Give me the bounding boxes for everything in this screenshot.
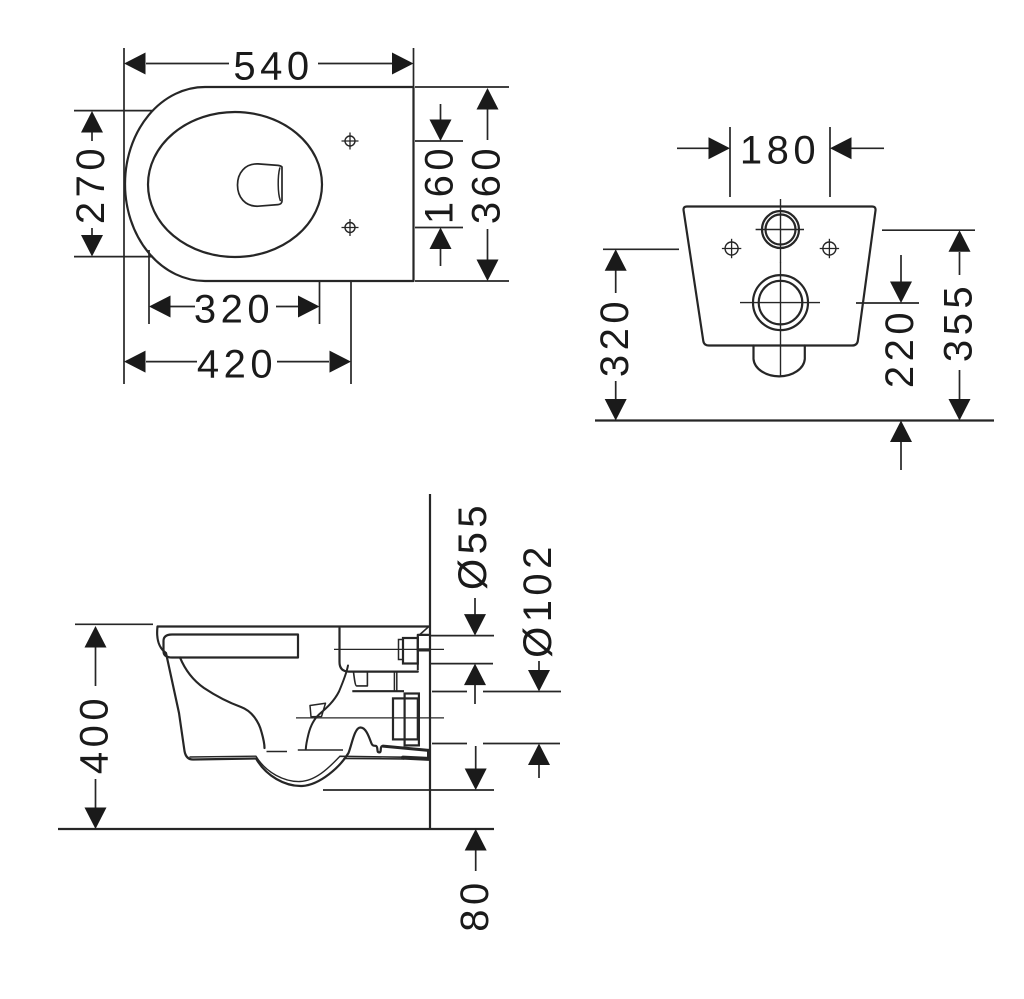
- svg-text:355: 355: [937, 282, 981, 362]
- svg-text:Ø55: Ø55: [451, 501, 495, 590]
- svg-text:420: 420: [197, 343, 277, 387]
- svg-text:320: 320: [194, 288, 274, 332]
- svg-text:180: 180: [740, 129, 820, 173]
- svg-text:270: 270: [69, 144, 113, 224]
- svg-text:400: 400: [73, 694, 117, 774]
- svg-text:Ø102: Ø102: [516, 542, 560, 658]
- svg-text:80: 80: [453, 878, 497, 932]
- svg-text:360: 360: [465, 144, 509, 224]
- svg-text:160: 160: [418, 144, 462, 224]
- svg-text:320: 320: [593, 297, 637, 377]
- svg-text:220: 220: [878, 308, 922, 388]
- svg-text:540: 540: [233, 45, 313, 89]
